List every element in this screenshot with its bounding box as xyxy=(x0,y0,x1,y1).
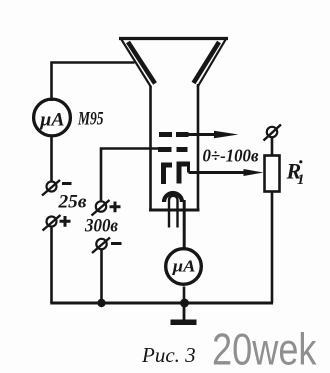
ground xyxy=(171,320,197,326)
cathode lead to meter xyxy=(183,200,186,249)
svg-text:М95: М95 xyxy=(77,110,103,130)
heater filament hairpin xyxy=(169,196,178,228)
wire meter2 to bottom rail xyxy=(183,287,186,304)
electrode row 2 (dashed) xyxy=(158,147,188,152)
svg-text:0÷-100в: 0÷-100в xyxy=(203,146,259,166)
svg-text:µА: µА xyxy=(171,257,195,276)
CRT funnel top (screen) xyxy=(119,37,228,40)
electrode row 1 (dashed) xyxy=(159,132,189,137)
tube neck bottom xyxy=(149,209,200,212)
wire terminal to bottom rail xyxy=(50,227,53,303)
junction node A xyxy=(97,299,105,307)
screen coating right xyxy=(194,42,220,83)
screen coating left xyxy=(128,42,155,84)
arrow 1 (beam output) xyxy=(188,133,220,136)
svg-text:25в: 25в xyxy=(57,193,86,213)
terminal X3 plus xyxy=(96,201,106,211)
CRT funnel right glass slope xyxy=(198,38,227,87)
wire terminal to bottom rail junction xyxy=(100,250,103,304)
cathode K xyxy=(164,193,182,202)
svg-text:µА: µА xyxy=(39,110,65,131)
microammeter PA1 xyxy=(34,99,71,136)
wire R1 to bottom rail xyxy=(271,192,274,304)
wire top-left from meter to tube screen xyxy=(52,63,135,102)
tube neck left wall xyxy=(149,86,152,210)
junction node B xyxy=(180,299,189,308)
bottom rail wire xyxy=(50,302,273,305)
resistor R1 xyxy=(265,156,280,192)
tube neck right wall xyxy=(197,84,200,210)
svg-text:20wek: 20wek xyxy=(212,326,317,373)
electrode row 3 left bracket xyxy=(161,165,172,184)
terminal X2 plus xyxy=(47,217,57,227)
svg-text:Рис. 3: Рис. 3 xyxy=(141,343,196,367)
electrode row 3 right bracket xyxy=(177,164,191,184)
wire meter to terminal xyxy=(50,135,53,182)
arrow 2 (to R1) xyxy=(189,171,249,174)
CRT funnel left glass slope xyxy=(121,38,152,87)
svg-text:300в: 300в xyxy=(84,217,118,237)
wire 300v to grid electrode xyxy=(101,149,164,202)
terminal X5 above R1 xyxy=(267,127,277,137)
svg-text:1: 1 xyxy=(297,172,305,188)
wire terminal to R1 xyxy=(271,138,274,157)
ground stub xyxy=(183,303,186,320)
terminal X4 minus xyxy=(96,239,106,249)
connector bracket to arrow 2 xyxy=(187,164,190,173)
microammeter PA2 xyxy=(166,249,202,285)
terminal X1 minus xyxy=(47,182,57,192)
